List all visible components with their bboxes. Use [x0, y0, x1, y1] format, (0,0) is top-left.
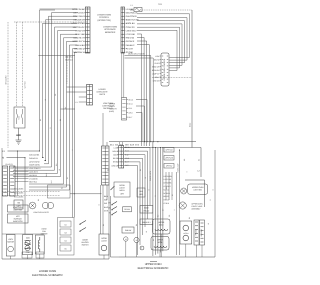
wire dashed P4 lamp circuit: [152, 77, 192, 79]
wire oven lamp feeds: [176, 150, 179, 255]
wire P5 vertical feed: [18, 151, 26, 234]
P6 right labels: [125, 146, 129, 167]
label lamp group: [33, 211, 49, 214]
svg-text:DLB R: DLB R: [113, 154, 119, 157]
box bake relay dark: [140, 206, 153, 214]
label lights relay dark: [102, 102, 114, 110]
svg-text:K3: K3: [65, 232, 67, 235]
svg-text:L1 IN BK: L1 IN BK: [126, 8, 134, 11]
connector P7 mid column: [102, 146, 110, 185]
svg-text:BROIL BU: BROIL BU: [126, 22, 135, 25]
svg-text:LOCK: LOCK: [8, 238, 14, 241]
P1 pin labels: [71, 8, 85, 54]
wire harness P2 long runs to upper control: [137, 14, 190, 71]
svg-text:LAMP GY: LAMP GY: [152, 72, 160, 75]
svg-text:LOWER OVEN: LOWER OVEN: [39, 270, 56, 273]
P3 right pin labels: [127, 98, 134, 119]
svg-text:GRD GN-12: GRD GN-12: [74, 47, 85, 50]
box hot surface indicator: [8, 214, 29, 223]
svg-text:NEUTRAL W: NEUTRAL W: [126, 11, 137, 14]
svg-text:W-14: W-14: [129, 103, 133, 106]
svg-text:LOCK SW V: LOCK SW V: [126, 29, 137, 32]
svg-text:LT COM BK: LT COM BK: [29, 177, 39, 180]
wire code labels extra sprinkle: [45, 158, 215, 249]
svg-text:DLB NO R-1: DLB NO R-1: [29, 157, 38, 160]
svg-text:DLB R: DLB R: [155, 62, 161, 65]
wire bottom rail stub: [150, 261, 157, 263]
clixon thermostat circles: [42, 202, 53, 208]
label P3 harness gray block: [109, 103, 117, 114]
svg-text:W-6: W-6: [104, 199, 107, 202]
svg-text:GRD GN-1: GRD GN-1: [65, 56, 73, 59]
svg-text:LIGHT SW: LIGHT SW: [193, 189, 202, 192]
box upper broil element: [151, 237, 169, 251]
svg-text:ELEMENT: ELEMENT: [200, 228, 203, 237]
svg-text:SW COM BK: SW COM BK: [14, 196, 24, 199]
component lock motor: [6, 235, 15, 257]
svg-text:MW COM GY: MW COM GY: [73, 26, 86, 29]
junction dots left half: [17, 150, 75, 194]
svg-text:DLB L1 BK: DLB L1 BK: [75, 33, 85, 36]
svg-text:P3-1 GY: P3-1 GY: [126, 47, 134, 50]
box low oven light switch: [8, 205, 29, 212]
svg-text:INDICATOR: INDICATOR: [13, 220, 23, 223]
lamp upper oven light: [181, 188, 187, 194]
svg-text:OVEN LAMP: OVEN LAMP: [176, 163, 179, 173]
label oven light switch: [96, 88, 108, 96]
svg-text:LIGHT SW: LIGHT SW: [14, 209, 23, 212]
svg-text:BK-4: BK-4: [104, 195, 108, 198]
wire code labels sprinkled right half: [139, 168, 212, 241]
svg-text:NEUT W-3: NEUT W-3: [65, 59, 73, 62]
svg-text:BROIL: BROIL: [157, 241, 162, 244]
svg-text:DLB COM R: DLB COM R: [126, 15, 137, 18]
svg-text:GY-9: GY-9: [104, 209, 108, 212]
svg-text:UPPER OVEN: UPPER OVEN: [192, 186, 204, 189]
P4 left pin labels: [152, 55, 161, 83]
box latch motor upper: [180, 221, 192, 244]
svg-text:NC BU-6: NC BU-6: [164, 192, 170, 195]
labels below P1 rows: [65, 56, 73, 62]
svg-text:UPPER OVEN CONTROL: UPPER OVEN CONTROL: [163, 58, 166, 81]
P2 pin labels: [125, 8, 139, 54]
wire P6 fanout: [124, 148, 150, 256]
box door latch mech: [114, 182, 130, 197]
svg-text:BK-12: BK-12: [189, 123, 192, 127]
box upper bake element: [153, 219, 171, 234]
svg-text:DOOR: DOOR: [119, 184, 125, 187]
svg-text:MOTOR: MOTOR: [7, 241, 14, 244]
svg-text:ASSEMBLY: ASSEMBLY: [191, 207, 201, 210]
wire P9 pin feeds: [67, 87, 87, 104]
svg-text:(LWR): (LWR): [109, 110, 114, 113]
svg-text:SW COM BK: SW COM BK: [14, 188, 24, 191]
svg-text:W-14: W-14: [125, 150, 129, 153]
terminal strip labels dark: [15, 154, 41, 184]
svg-text:DR SW BK: DR SW BK: [164, 182, 173, 185]
wire main vertical feeders upper: [153, 142, 163, 256]
svg-text:MANAGER: MANAGER: [105, 31, 116, 34]
box DLB dark: [137, 188, 145, 197]
box hot surface indicator small: [14, 200, 23, 209]
svg-text:FAN HI BU: FAN HI BU: [75, 44, 85, 47]
transformer T1: [25, 240, 30, 250]
wire harness P2 short drops: [137, 34, 149, 146]
svg-text:OR-9: OR-9: [129, 112, 133, 115]
svg-text:LATCH SW: LATCH SW: [164, 175, 173, 178]
labels below plug rows: [14, 188, 24, 199]
wire harness P1 rows: [40, 9, 78, 52]
label cavity lamp assembly: [191, 203, 203, 211]
connector P6 upper cavity: [119, 146, 124, 169]
svg-text:NEU W: NEU W: [113, 150, 119, 153]
svg-text:LATCH: LATCH: [119, 187, 125, 190]
svg-text:APPLIANCE: APPLIANCE: [104, 28, 116, 31]
component bake element lower: [35, 235, 44, 254]
svg-text:BU-7: BU-7: [129, 116, 133, 119]
label door unlock switch: [81, 239, 89, 247]
svg-text:DLB COM BK: DLB COM BK: [29, 154, 40, 157]
wire dashed interlock 2: [2, 195, 60, 197]
svg-text:HSI OR: HSI OR: [164, 195, 170, 198]
connector P3 cavity harness: [122, 98, 127, 121]
lamp oven cavity: [179, 202, 186, 209]
wire bottom rail lower oven: [2, 254, 109, 259]
svg-text:SW P9: SW P9: [99, 93, 106, 96]
svg-text:MECH: MECH: [119, 189, 125, 192]
svg-text:GRD GN: GRD GN: [111, 164, 118, 167]
svg-text:BU-7: BU-7: [125, 161, 129, 164]
svg-text:GRD GN: GRD GN: [153, 79, 160, 82]
wire dashed lamp feeder: [66, 56, 68, 84]
labels top bus dark: [110, 144, 139, 147]
switch door latch diagonal: [111, 186, 115, 190]
wire L1 feed right edge vertical: [189, 10, 192, 148]
svg-text:ELECTRICAL SCHEMATIC: ELECTRICAL SCHEMATIC: [32, 274, 63, 277]
caption lower oven electrical schematic: [32, 270, 63, 277]
svg-text:BU-9: BU-9: [130, 144, 134, 147]
svg-text:BR BU: BR BU: [113, 161, 119, 164]
svg-text:K2: K2: [65, 224, 67, 227]
svg-text:BK-16: BK-16: [125, 146, 129, 149]
component DLB relay: [23, 235, 33, 255]
label convection fan: [41, 228, 48, 236]
svg-text:BROIL BU: BROIL BU: [152, 69, 160, 72]
svg-text:CONV FAN R: CONV FAN R: [73, 15, 85, 18]
svg-text:LT BK-8: LT BK-8: [164, 202, 170, 205]
svg-text:UPR TCO: UPR TCO: [166, 149, 174, 152]
svg-text:LOWER OVEN: LOWER OVEN: [103, 26, 117, 29]
wire top rail lower components: [2, 233, 44, 235]
lamp indicator small: [140, 246, 144, 250]
wire P7 drops: [70, 113, 109, 259]
left wire bus verticals with staircase turns: [13, 10, 75, 218]
svg-text:HSI W-22: HSI W-22: [126, 37, 135, 40]
thermal switch box TCO lower: [14, 107, 25, 128]
wire code labels mid dark: [104, 195, 108, 212]
svg-text:BK-1A GRD: BK-1A GRD: [5, 75, 8, 84]
wire left rail right half: [111, 196, 120, 257]
wire light row: [61, 108, 76, 110]
wire dashed fuse feed to right: [142, 9, 192, 11]
svg-text:FAN SW: FAN SW: [125, 229, 132, 232]
svg-text:LOCK NO V: LOCK NO V: [29, 171, 39, 174]
svg-text:GY-5: GY-5: [125, 164, 129, 167]
svg-text:SW COM BK: SW COM BK: [14, 192, 24, 195]
connector P4 upper oven control: [161, 53, 169, 86]
svg-text:COIL: COIL: [26, 251, 30, 254]
svg-text:MICRO SW LT SW DR: MICRO SW LT SW DR: [128, 53, 145, 56]
svg-text:LT RLY BK: LT RLY BK: [126, 33, 136, 36]
svg-text:CONV GY: CONV GY: [126, 26, 136, 29]
svg-text:FAN BU-2: FAN BU-2: [126, 44, 135, 47]
wire L2 corner drop right: [185, 148, 205, 208]
box broil relay: [140, 219, 153, 225]
wire P2 bottom drops to bus: [122, 53, 153, 142]
svg-text:R-8: R-8: [104, 202, 107, 205]
svg-text:UPR FUSE: UPR FUSE: [165, 157, 174, 160]
box door latch lower: [99, 234, 109, 255]
svg-text:DOOR SW BK: DOOR SW BK: [72, 8, 85, 11]
svg-text:BAKE OR: BAKE OR: [152, 65, 160, 68]
svg-text:PLUG P5: PLUG P5: [5, 163, 12, 166]
svg-text:BK OR: BK OR: [113, 157, 119, 160]
wire top bus upper schematic: [109, 142, 201, 148]
fuse F1 thermal cutout: [130, 3, 163, 12]
svg-text:DR SW: DR SW: [124, 208, 130, 211]
svg-text:R-12: R-12: [129, 107, 133, 110]
component meat probe: [194, 220, 199, 245]
svg-text:FAN GY: FAN GY: [164, 199, 171, 202]
svg-text:SWITCH: SWITCH: [82, 244, 90, 247]
motor cooling fan: [134, 237, 139, 242]
motor convection upper: [124, 237, 128, 241]
box door switch upper: [123, 207, 132, 212]
svg-text:NEU W: NEU W: [154, 58, 160, 61]
svg-text:HSI OR-22: HSI OR-22: [29, 174, 37, 177]
box control relay board dashed: [58, 218, 75, 256]
svg-text:RELAY: RELAY: [144, 209, 150, 212]
wire P6 stubs to bus: [120, 142, 123, 146]
labels upper mid rows: [164, 175, 173, 205]
box latch assembly dashed: [48, 185, 71, 198]
switch rows upper left: [108, 202, 117, 216]
svg-text:LT SW V-8: LT SW V-8: [76, 29, 86, 32]
label N supply: [2, 157, 25, 160]
wire dashed interlock 1: [2, 191, 60, 193]
wire dashed feeders left margin: [8, 22, 88, 148]
svg-text:NEUT W-2: NEUT W-2: [29, 181, 37, 184]
svg-text:DOOR LOCK: DOOR LOCK: [149, 170, 152, 181]
junction dots right half: [144, 141, 180, 150]
labels micro switch row dark: [128, 53, 145, 56]
svg-text:LOCK MTR BU: LOCK MTR BU: [71, 22, 85, 25]
connector P2 lower oven control right header: [121, 7, 125, 53]
svg-text:DR SW R: DR SW R: [126, 40, 135, 43]
svg-text:W-3: W-3: [115, 144, 118, 147]
svg-text:BROIL RLY W: BROIL RLY W: [73, 40, 85, 43]
svg-text:BAKE RLY R: BAKE RLY R: [74, 37, 86, 40]
svg-text:HSI LWR OR: HSI LWR OR: [73, 19, 85, 22]
box fan switch: [122, 227, 134, 233]
svg-text:CONTROL: CONTROL: [99, 16, 110, 19]
svg-text:K4: K4: [65, 240, 67, 243]
svg-text:LOW OVEN LIGHTS: LOW OVEN LIGHTS: [33, 211, 49, 214]
wire code labels sprinkled left half: [37, 93, 105, 226]
switch door latch contacts: [80, 221, 87, 232]
svg-text:R-12: R-12: [125, 153, 129, 156]
connector P1 lower oven control left header: [85, 7, 90, 53]
svg-text:W-2 TCO: W-2 TCO: [24, 81, 27, 89]
P6 left labels: [111, 146, 118, 167]
small junction boxes on rail: [22, 252, 44, 258]
ground symbol chassis: [16, 128, 22, 145]
label block appliance manager: [103, 26, 117, 34]
wire element stubs to rail: [126, 234, 202, 257]
svg-text:BAKE RLY OR: BAKE RLY OR: [126, 19, 139, 22]
wire P3 fanout to bus: [136, 100, 147, 142]
label block lower oven control: [97, 14, 111, 22]
svg-text:DOOR: DOOR: [101, 237, 107, 240]
svg-text:LOW OVEN: LOW OVEN: [13, 206, 23, 209]
connector P9 oven light switch plug: [87, 85, 93, 106]
label L1 supply: [2, 150, 40, 153]
svg-text:OR-9: OR-9: [125, 157, 129, 160]
svg-text:L1: L1: [76, 101, 78, 104]
svg-text:UPR SW: UPR SW: [166, 165, 173, 168]
connector P5 left plug double strip: [3, 163, 16, 196]
wire bottom rail upper: [119, 150, 215, 257]
svg-text:TCO: TCO: [158, 3, 162, 6]
vertical label door lock: [149, 170, 152, 181]
wire left edge rail: [1, 148, 3, 259]
svg-text:ELECTRICAL SCHEMATIC: ELECTRICAL SCHEMATIC: [138, 267, 169, 270]
svg-text:BROIL RLY: BROIL RLY: [142, 221, 151, 224]
svg-text:LATCH: LATCH: [101, 240, 107, 243]
svg-text:DR PLG W-2: DR PLG W-2: [74, 11, 86, 14]
svg-text:LOCK COM GY: LOCK COM GY: [29, 167, 41, 170]
svg-text:LOWER OVEN: LOWER OVEN: [97, 14, 111, 17]
svg-text:NEUTRAL W: NEUTRAL W: [73, 51, 84, 54]
lamp lower oven light: [29, 202, 36, 209]
label L2: [197, 170, 200, 173]
svg-text:GY-2: GY-2: [135, 144, 139, 147]
svg-text:K5: K5: [65, 248, 67, 251]
svg-text:UPPER OVEN: UPPER OVEN: [145, 263, 162, 266]
vertical wire code labels left: [5, 75, 27, 89]
component side element: [200, 220, 205, 245]
caption upper oven electrical schematic: [138, 263, 169, 270]
svg-text:(UPPER PCB): (UPPER PCB): [98, 19, 111, 22]
box upper oven light switch: [188, 184, 208, 194]
svg-text:LOCK SW: LOCK SW: [164, 178, 172, 181]
svg-text:DOOR SW BU: DOOR SW BU: [29, 164, 41, 167]
component column upper TCOs: [164, 148, 174, 201]
label GRD: [16, 134, 21, 137]
svg-text:LATCH SW W: LATCH SW W: [29, 160, 40, 163]
svg-text:BK-16: BK-16: [129, 98, 134, 101]
svg-text:BAKE: BAKE: [144, 207, 149, 210]
svg-text:BK-1: BK-1: [110, 144, 114, 147]
